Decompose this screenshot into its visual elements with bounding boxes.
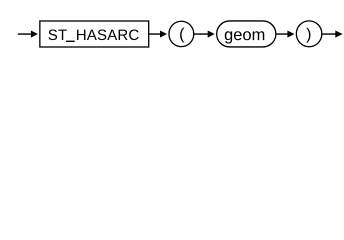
background — [0, 0, 344, 58]
label ) — [306, 28, 310, 43]
arrowhead into geom — [208, 30, 215, 37]
label geom — [225, 31, 264, 43]
wire ( to geom — [194, 33, 209, 35]
wire box to ( — [149, 33, 160, 35]
terminal ( ellipse — [169, 21, 194, 46]
wire entry line — [18, 33, 32, 35]
wire exit line — [322, 33, 336, 35]
arrowhead exit — [335, 30, 342, 37]
terminal geom stadium — [217, 21, 276, 47]
label ST_HASARC — [48, 29, 138, 42]
box ST_HASARC — [40, 21, 149, 47]
label ( — [180, 28, 184, 43]
arrowhead into ST_HASARC box — [31, 30, 38, 37]
railroad syntax diagram: ST_HASARC ( geom ) — [0, 0, 344, 58]
arrowhead into ) — [287, 30, 294, 37]
arrowhead into ( — [160, 30, 167, 37]
terminal ) ellipse — [296, 21, 322, 47]
wire geom to ) — [276, 33, 288, 35]
